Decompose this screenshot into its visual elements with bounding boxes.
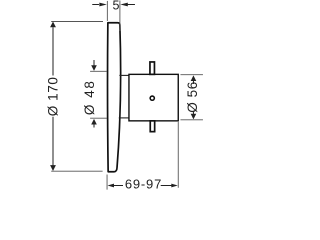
bottom tab [150,121,154,132]
neck bottom line [119,117,129,119]
dim 48 top extension line [90,70,107,72]
dim 48 bottom arrow (outside, pointing up) [91,119,97,125]
dimension 5 (top): leader lines [92,4,99,6]
dim 5 right extension line [119,1,121,32]
center circle (spindle) [150,96,154,100]
dim 69-97 left extension line [106,174,108,189]
svg-text:Ø 170: Ø 170 [46,77,61,117]
dim 48 bottom extension line [90,117,107,119]
dim 48 top arrow (outside, pointing down) [93,60,95,66]
dim 56 top arrow (inside, pointing up) [191,75,197,81]
svg-text:69-97: 69-97 [125,177,162,191]
dim 69-97 line with arrows [108,184,115,188]
dim 170 bottom extension line [51,170,102,172]
valve body box [129,74,178,121]
svg-text:Ø 56: Ø 56 [185,81,200,113]
dim 170 line with arrows [50,22,56,28]
dim 56 bottom arrow (inside, pointing down) [192,111,194,114]
svg-text:5: 5 [113,0,120,12]
neck top line [119,74,129,76]
svg-text:Ø 48: Ø 48 [82,80,97,116]
top tab [150,62,155,74]
dim 5 left extension line [106,1,108,21]
dim 170 top extension line [51,21,103,23]
dim 5 right arrowhead [120,3,128,7]
dim 56 top extension line [180,74,203,76]
dim 56 bottom extension line [180,119,203,121]
escutcheon plate (side profile) [108,23,121,172]
dim 69-97 right extension line [177,122,179,188]
dim 5 left arrowhead [99,3,107,7]
